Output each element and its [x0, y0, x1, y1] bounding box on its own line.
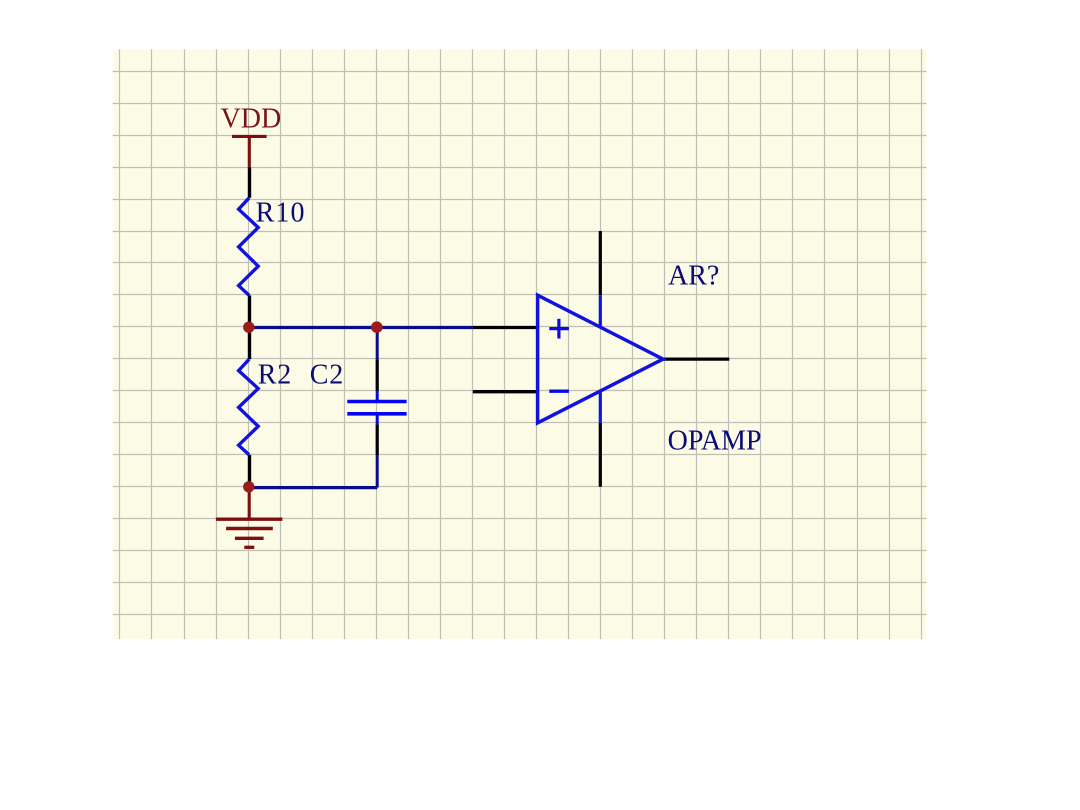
op-amp minus sign	[549, 390, 569, 393]
wire R2 to node C	[248, 455, 251, 488]
svg-text:C2: C2	[310, 360, 344, 391]
node A junction dot	[243, 322, 254, 333]
op-amp plus sign	[549, 319, 569, 339]
schematic sheet	[113, 49, 927, 639]
capacitor C2 top pin	[376, 359, 379, 391]
power port VDD	[232, 136, 267, 167]
wire R10 to node A	[248, 295, 251, 327]
op-amp AR? V+ power pin	[599, 231, 602, 295]
wire node B down to C2	[376, 328, 379, 360]
svg-text:OPAMP: OPAMP	[668, 426, 762, 457]
op-amp AR? inverting input pin	[473, 390, 538, 393]
op-amp AR? V+ stub	[599, 295, 602, 328]
wire bottom rail	[249, 486, 377, 489]
wire node A to R2	[248, 328, 251, 360]
op-amp AR? V- stub	[599, 391, 602, 423]
op-amp AR? triangle	[538, 295, 663, 423]
wire VDD to R10	[248, 167, 251, 197]
node B junction dot	[371, 321, 383, 333]
resistor R2	[239, 359, 259, 455]
resistor R10	[239, 198, 259, 296]
op-amp AR? output pin	[663, 358, 729, 361]
op-amp AR? V- power pin	[599, 423, 602, 487]
svg-text:AR?: AR?	[668, 260, 719, 291]
op-amp AR? noninverting input pin	[473, 326, 538, 329]
svg-text:R10: R10	[256, 198, 306, 229]
capacitor C2	[347, 391, 406, 424]
svg-text:VDD: VDD	[221, 104, 282, 135]
capacitor C2 bottom pin	[376, 424, 379, 455]
svg-text:R2: R2	[258, 360, 292, 391]
wire C2 to bottom rail	[376, 455, 379, 488]
node C junction dot	[243, 481, 254, 492]
ground	[216, 487, 283, 547]
wire node A to node B	[249, 326, 473, 329]
